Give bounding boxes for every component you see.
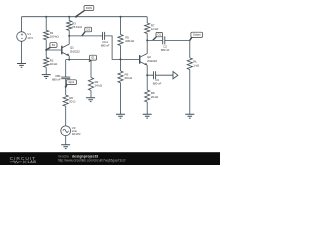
svg-text:24 kΩ: 24 kΩ xyxy=(95,84,103,88)
svg-text:680 nF: 680 nF xyxy=(52,78,61,82)
svg-text:200 kΩ: 200 kΩ xyxy=(125,39,135,43)
svg-text:2N2222: 2N2222 xyxy=(70,49,80,53)
svg-text:100 kΩ: 100 kΩ xyxy=(50,35,60,39)
svg-text:DCIN: DCIN xyxy=(86,7,92,10)
svg-text:680 nF: 680 nF xyxy=(153,82,162,86)
svg-text:Input: Input xyxy=(69,81,75,84)
svg-text:http://www.circuitlab.com/circ: http://www.circuitlab.com/circuit/7wq65g… xyxy=(58,159,126,163)
svg-text:680 nF: 680 nF xyxy=(101,44,110,48)
svg-text:40 kΩ: 40 kΩ xyxy=(50,62,58,66)
svg-text:LAB: LAB xyxy=(28,160,37,164)
svg-text:680 nF: 680 nF xyxy=(161,48,170,52)
svg-text:20 kΩ: 20 kΩ xyxy=(151,95,159,99)
svg-text:12 kΩ: 12 kΩ xyxy=(151,27,159,31)
svg-text:Output: Output xyxy=(193,34,201,37)
svg-text:50 Ω: 50 Ω xyxy=(69,100,76,104)
svg-text:40 kHz: 40 kHz xyxy=(72,132,81,136)
svg-text:1 kΩ: 1 kΩ xyxy=(193,63,200,67)
svg-text:CI1: CI1 xyxy=(86,28,90,31)
svg-text:2N2222: 2N2222 xyxy=(147,59,157,63)
svg-text:78.9 kΩ: 78.9 kΩ xyxy=(72,25,83,29)
svg-text:68 kΩ: 68 kΩ xyxy=(125,76,133,80)
